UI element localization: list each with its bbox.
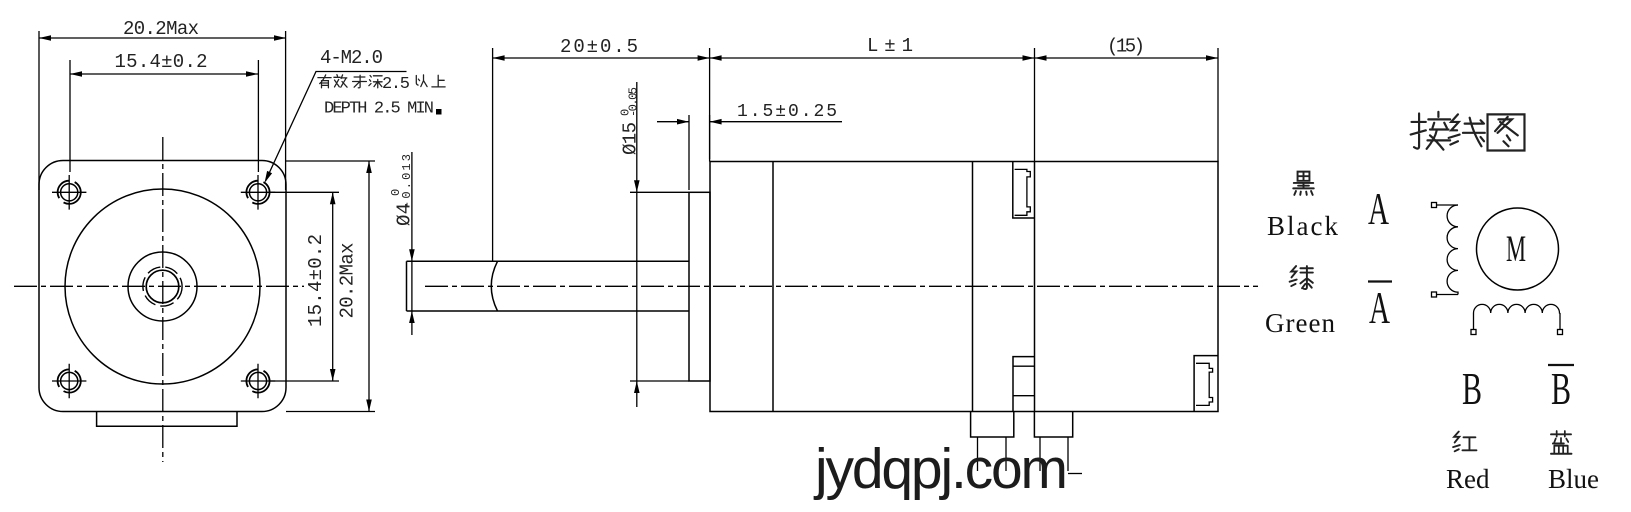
arrows L±1 [710, 55, 722, 61]
motor flange outline [39, 161, 286, 412]
wire housing right [1034, 412, 1072, 438]
arrows (15) [1035, 55, 1047, 61]
wire housing left [971, 412, 1014, 438]
top dimension chain line [493, 57, 1218, 59]
motor circle M [1477, 208, 1559, 290]
shaft break arc [491, 261, 497, 311]
svg-text:jydqpj.com: jydqpj.com [813, 437, 1068, 501]
label 黑 (CJK) [1293, 172, 1314, 195]
label B-bar [1548, 363, 1574, 414]
mounting hole bottom-right [241, 364, 275, 399]
svg-text:15.4±0.2: 15.4±0.2 [305, 234, 327, 327]
svg-text:Red: Red [1446, 464, 1490, 494]
clip top-middle [1013, 162, 1035, 219]
clip bottom-right [1194, 356, 1218, 412]
svg-text:20.2Max: 20.2Max [337, 243, 359, 319]
gearbox face line [772, 162, 774, 412]
pilot boss [689, 192, 710, 381]
connector tab below flange [97, 412, 237, 427]
label 红 (CJK) [1453, 432, 1476, 452]
shaft circle inner [146, 270, 179, 303]
label 绿 (CJK) [1290, 266, 1313, 289]
svg-text:20.2Max: 20.2Max [123, 18, 199, 40]
svg-text:(15): (15) [1107, 36, 1145, 58]
svg-text:15.4±0.2: 15.4±0.2 [115, 51, 208, 73]
coil A (vertical) [1432, 203, 1459, 298]
label A-bar [1368, 282, 1392, 334]
svg-text:L±1: L±1 [867, 35, 913, 57]
svg-text:B: B [1551, 363, 1571, 414]
boss circle [128, 252, 197, 321]
dimension Ø15 0/-0.05 [619, 82, 690, 407]
svg-text:B: B [1462, 363, 1482, 414]
svg-text:M: M [1506, 229, 1526, 270]
motor rear line [972, 162, 974, 412]
svg-text:DEPTH 2.5 MIN: DEPTH 2.5 MIN [324, 100, 434, 119]
vertical centerline of front view [162, 137, 164, 462]
side view centerline [425, 285, 1258, 287]
svg-text:2.5: 2.5 [382, 75, 410, 94]
svg-text:Green: Green [1265, 308, 1336, 338]
svg-text:Ø15: Ø15 [620, 122, 642, 155]
mounting hole bottom-left [52, 364, 86, 399]
motor body [710, 162, 1218, 412]
dimension 15.4±0.2 (right vertical) [270, 192, 339, 381]
shaft [407, 261, 690, 311]
arrows 20±0.5 [493, 55, 505, 61]
mounting hole top-right [241, 175, 275, 210]
mounting hole top-left [52, 175, 86, 210]
extension above end cap [1034, 48, 1036, 162]
label 蓝 (CJK) [1551, 431, 1572, 454]
extension above body front face [709, 48, 711, 162]
dimension 20.2Max (right vertical) [286, 161, 375, 412]
svg-text:4-M2.0: 4-M2.0 [320, 47, 383, 69]
shaft circle outer (broken) [143, 267, 182, 306]
clip bottom-middle [1013, 357, 1035, 412]
dimension 20.2Max (top) [39, 18, 286, 190]
extension line at shaft shoulder [492, 48, 494, 261]
coil B (horizontal) [1471, 304, 1563, 334]
svg-text:A: A [1368, 183, 1389, 234]
svg-text:A: A [1369, 282, 1390, 333]
dimension 1.5±0.25 [657, 102, 842, 190]
dimension Ø4 0/-0.013 [389, 152, 416, 335]
svg-text:-0.05: -0.05 [627, 87, 641, 117]
watermark dash [1068, 473, 1082, 475]
pilot circle (large) [65, 189, 260, 384]
horizontal centerline of front view [14, 285, 304, 287]
leader line 4-M2.0 [265, 72, 407, 184]
svg-text:1.5±0.25: 1.5±0.25 [737, 102, 837, 122]
extension above rear face [1217, 48, 1219, 162]
wires [978, 437, 1069, 471]
dimension 15.4±0.2 (top) [70, 51, 258, 172]
end cap line [1034, 162, 1036, 412]
svg-text:Blue: Blue [1548, 464, 1599, 494]
title 接线图 (CJK) [1411, 112, 1525, 151]
label depth (CJK) 有效牙深2.5以上 [318, 75, 445, 88]
svg-text:Black: Black [1267, 211, 1340, 241]
